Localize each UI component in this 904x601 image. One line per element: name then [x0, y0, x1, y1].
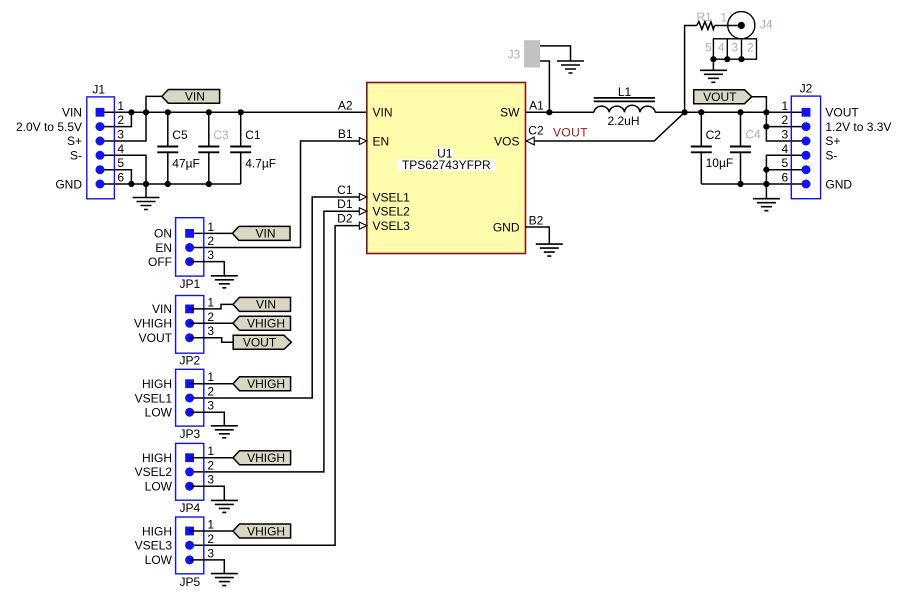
- svg-text:EN: EN: [373, 134, 390, 148]
- svg-text:VHIGH: VHIGH: [247, 451, 285, 465]
- svg-text:6: 6: [782, 171, 789, 185]
- svg-text:GND: GND: [825, 177, 852, 191]
- wire VSEL2 from JP4.2 to U1.VSEL2: [190, 211, 367, 472]
- net flag VOUT at output: [694, 90, 752, 104]
- connector J3 (DNP): [508, 40, 540, 67]
- U1 pin designators: [337, 99, 544, 228]
- junction VIN rail C3: [206, 109, 212, 115]
- svg-text:C2: C2: [528, 124, 544, 138]
- wire JP3 pin1 to VHIGH flag: [190, 383, 233, 385]
- svg-text:C1: C1: [245, 128, 261, 142]
- net flag VHIGH at JP3.1: [233, 377, 291, 391]
- ground at JP1: [211, 276, 238, 288]
- svg-text:VSEL2: VSEL2: [373, 205, 411, 219]
- net flag VHIGH at JP4.1: [233, 451, 291, 465]
- wire J2 pins 4-6 vertical: [766, 155, 806, 184]
- svg-text:3: 3: [731, 41, 738, 55]
- junction GND rail x146: [143, 181, 149, 187]
- svg-text:C2: C2: [706, 128, 722, 142]
- svg-text:JP1: JP1: [179, 277, 200, 291]
- svg-text:S-: S-: [825, 149, 837, 163]
- svg-text:2: 2: [207, 234, 214, 248]
- svg-text:GND: GND: [493, 220, 520, 234]
- svg-text:SW: SW: [500, 106, 520, 120]
- junction VOUT rail at C4: [737, 109, 743, 115]
- junction right GND rail ground stem: [763, 181, 769, 187]
- wire JP4 pin3 to ground: [190, 486, 225, 500]
- svg-text:EN: EN: [155, 241, 172, 255]
- capacitor C5: [157, 112, 200, 184]
- svg-text:VHIGH: VHIGH: [247, 377, 285, 391]
- jumper JP5: [176, 517, 204, 589]
- wire U1 GND B2 to ground: [526, 227, 550, 244]
- svg-text:4: 4: [117, 142, 124, 156]
- JP4 pin numbers: [207, 444, 214, 487]
- junction right GND rail C4: [737, 181, 743, 187]
- wire GND rail J1.6 to C1: [100, 183, 241, 185]
- svg-text:VIN: VIN: [152, 302, 172, 316]
- connector J4 coax (DNP): [705, 11, 773, 60]
- jumper JP3: [176, 369, 204, 441]
- svg-text:VIN: VIN: [256, 298, 276, 312]
- svg-text:JP2: JP2: [179, 353, 200, 367]
- JP5 pin numbers: [207, 518, 214, 561]
- svg-text:3: 3: [207, 546, 214, 560]
- junction GND rail C3: [206, 181, 212, 187]
- svg-text:LOW: LOW: [145, 553, 173, 567]
- junction VOUT rail at R1 riser: [682, 109, 688, 115]
- svg-text:VHIGH: VHIGH: [247, 317, 285, 331]
- svg-text:2: 2: [747, 41, 754, 55]
- JP2 pin numbers: [207, 295, 214, 338]
- svg-text:2: 2: [782, 113, 789, 127]
- svg-text:VSEL1: VSEL1: [373, 190, 411, 204]
- svg-text:OFF: OFF: [148, 255, 172, 269]
- svg-text:B2: B2: [529, 213, 544, 227]
- svg-text:2: 2: [207, 532, 214, 546]
- junction J4 shield pins: [710, 56, 716, 62]
- svg-text:2: 2: [207, 385, 214, 399]
- net flag VHIGH at JP5.1: [233, 524, 291, 538]
- arrowhead at U1 VOS pin: [526, 137, 534, 145]
- JP2 labels: [134, 302, 173, 345]
- svg-text:VOUT: VOUT: [825, 106, 859, 120]
- junction J2 pin5 tap: [763, 167, 769, 173]
- svg-text:2: 2: [207, 458, 214, 472]
- svg-text:VSEL1: VSEL1: [135, 391, 173, 405]
- junction VIN rail C5: [165, 109, 171, 115]
- op-amp U1 TPS62743YFPR body: [367, 83, 526, 254]
- net flag VIN at JP1.1: [232, 226, 290, 240]
- svg-text:D1: D1: [337, 197, 353, 211]
- junction VOUT rail at C2: [698, 109, 704, 115]
- wire GND rail ground stem: [145, 184, 147, 198]
- net flag VIN at JP2.1: [233, 297, 291, 311]
- wire GND rail C2 to J2.6: [701, 183, 806, 185]
- ground at U1 B2: [536, 244, 563, 256]
- svg-text:5: 5: [117, 156, 124, 170]
- svg-text:VOUT: VOUT: [243, 336, 277, 350]
- svg-text:HIGH: HIGH: [142, 377, 172, 391]
- svg-text:10µF: 10µF: [706, 156, 734, 170]
- JP4 labels: [135, 451, 173, 494]
- wire VOS feedback with diagonal: [526, 112, 685, 141]
- svg-text:4.7µF: 4.7µF: [245, 157, 276, 171]
- svg-text:J3: J3: [508, 47, 521, 61]
- wire J2 pin2: [766, 126, 806, 128]
- wire VSEL1 from JP3.2 to U1.VSEL1: [190, 197, 367, 398]
- JP3 pin numbers: [207, 370, 214, 413]
- svg-text:3: 3: [782, 128, 789, 142]
- svg-text:A1: A1: [529, 99, 544, 113]
- svg-text:2.2uH: 2.2uH: [607, 114, 639, 128]
- svg-text:1: 1: [207, 444, 214, 458]
- connector J2: [791, 82, 820, 199]
- wire VOUT flag to rail and J2.3: [752, 97, 806, 141]
- JP1 labels: [148, 227, 172, 269]
- junction VIN rail x131: [128, 109, 134, 115]
- svg-text:VHIGH: VHIGH: [134, 317, 172, 331]
- wire VSEL3 from JP5.2 to U1.VSEL3: [190, 226, 367, 546]
- net flag VIN at J1: [162, 90, 220, 104]
- svg-text:VOS: VOS: [494, 134, 519, 148]
- jumper JP1: [176, 218, 204, 291]
- svg-text:C1: C1: [337, 183, 353, 197]
- svg-text:S-: S-: [70, 149, 82, 163]
- wire JP2 pin1 to VIN flag: [190, 304, 233, 309]
- svg-text:1: 1: [207, 295, 214, 309]
- wire VIN rail J1.1 to U1.VIN: [100, 111, 367, 113]
- ground at JP5: [211, 574, 238, 586]
- wire J1 pin4 S- riser to GND rail: [100, 155, 146, 184]
- svg-text:L1: L1: [618, 85, 632, 99]
- ground at J2: [753, 199, 780, 211]
- svg-text:GND: GND: [55, 177, 82, 191]
- svg-text:S+: S+: [825, 134, 840, 148]
- svg-text:2.0V to 5.5V: 2.0V to 5.5V: [16, 120, 82, 134]
- junction VIN rail C1: [238, 109, 244, 115]
- svg-text:VSEL3: VSEL3: [135, 539, 173, 553]
- svg-text:5: 5: [782, 156, 789, 170]
- svg-text:4: 4: [782, 142, 789, 156]
- U1 pin names: [373, 106, 521, 235]
- svg-text:3: 3: [117, 128, 124, 142]
- svg-text:J4: J4: [760, 18, 773, 32]
- svg-text:R1: R1: [697, 10, 713, 24]
- svg-text:3: 3: [207, 399, 214, 413]
- svg-text:VIN: VIN: [255, 227, 275, 241]
- svg-text:LOW: LOW: [145, 406, 173, 420]
- capacitor C2: [691, 112, 733, 184]
- svg-text:VHIGH: VHIGH: [247, 524, 285, 538]
- JP1 pin numbers: [207, 220, 214, 262]
- junction SW at J3 drop: [546, 109, 552, 115]
- svg-text:1: 1: [207, 220, 214, 234]
- svg-text:3: 3: [207, 473, 214, 487]
- svg-text:VSEL2: VSEL2: [135, 465, 173, 479]
- svg-text:VOUT: VOUT: [553, 125, 588, 139]
- svg-text:JP5: JP5: [179, 575, 200, 589]
- wire JP2 pin3 to VOUT flag: [190, 338, 234, 343]
- wire J3 bottom to SW rail: [540, 61, 549, 112]
- net flag VOUT at JP2.3: [233, 335, 291, 349]
- capacitor C3 (DNP): [198, 112, 229, 184]
- wire SW rail U1 to L1: [526, 111, 594, 113]
- junction J2 pin2 tap: [763, 124, 769, 130]
- jumper JP4: [176, 443, 204, 515]
- svg-text:1: 1: [117, 99, 124, 113]
- jumper JP2: [176, 296, 204, 368]
- wire J2 ground stem: [765, 184, 767, 199]
- svg-text:J2: J2: [800, 82, 813, 96]
- svg-text:J1: J1: [92, 83, 105, 97]
- svg-text:VOUT: VOUT: [703, 90, 737, 104]
- svg-text:VSEL3: VSEL3: [373, 219, 411, 233]
- U1 input pin arrowheads EN VSEL1 VSEL2 VSEL3: [359, 138, 367, 230]
- svg-text:TPS62743YFPR: TPS62743YFPR: [402, 158, 491, 172]
- wire J1 pin5 riser to GND rail: [100, 170, 131, 184]
- svg-text:1: 1: [207, 370, 214, 384]
- svg-text:D2: D2: [337, 212, 353, 226]
- svg-text:S+: S+: [67, 134, 82, 148]
- svg-text:JP4: JP4: [179, 501, 200, 515]
- svg-text:6: 6: [117, 171, 124, 185]
- JP3 labels: [135, 377, 173, 420]
- wire J3 top to ground: [540, 46, 570, 61]
- svg-text:HIGH: HIGH: [142, 451, 172, 465]
- wire JP2 pin2 to VHIGH flag: [190, 322, 233, 324]
- wire JP1 pin3 to ground: [190, 262, 225, 276]
- svg-text:VIN: VIN: [62, 106, 82, 120]
- svg-text:C5: C5: [172, 128, 188, 142]
- svg-text:HIGH: HIGH: [142, 524, 172, 538]
- svg-text:C4: C4: [746, 127, 762, 141]
- J2 signal labels: [825, 106, 891, 192]
- wire R1 to J4 center: [715, 25, 742, 27]
- svg-text:3: 3: [207, 324, 214, 338]
- svg-text:47µF: 47µF: [172, 157, 200, 171]
- svg-text:3: 3: [207, 248, 214, 262]
- wire JP5 pin3 to ground: [190, 560, 225, 574]
- svg-text:4: 4: [718, 41, 725, 55]
- svg-text:JP3: JP3: [179, 427, 200, 441]
- JP5 labels: [135, 524, 173, 567]
- inductor L1 2.2uH: [594, 85, 656, 128]
- svg-text:2: 2: [207, 310, 214, 324]
- ground at J1 GND rail: [133, 198, 160, 210]
- ground at J3: [557, 61, 584, 73]
- wire J4 shield to ground: [712, 59, 714, 70]
- wire JP4 pin1 to VHIGH flag: [190, 457, 233, 459]
- net flag VHIGH at JP2.2: [233, 316, 291, 330]
- svg-text:ON: ON: [154, 227, 172, 241]
- resistor R1 (DNP): [697, 10, 715, 30]
- svg-text:B1: B1: [338, 127, 353, 141]
- J1 pin numbers: [117, 99, 124, 185]
- svg-text:VIN: VIN: [185, 90, 205, 104]
- junction GND rail x131: [128, 181, 134, 187]
- wire JP5 pin1 to VHIGH flag: [190, 530, 233, 532]
- wire J1 pin2 riser to VIN rail: [100, 112, 131, 126]
- junction VOUT rail at flag drop: [763, 109, 769, 115]
- wire J2 pin5: [766, 169, 806, 171]
- svg-text:1.2V to 3.3V: 1.2V to 3.3V: [825, 120, 891, 134]
- J1 signal labels: [16, 106, 82, 192]
- capacitor C1: [230, 112, 276, 184]
- wire R1 riser from VOUT rail: [685, 26, 697, 113]
- svg-text:1: 1: [720, 11, 727, 25]
- svg-text:A2: A2: [338, 99, 353, 113]
- svg-text:2: 2: [117, 113, 124, 127]
- capacitor C4 (DNP): [730, 112, 761, 184]
- svg-text:VOUT: VOUT: [139, 331, 173, 345]
- junction VIN rail x146: [143, 109, 149, 115]
- ground at JP4: [211, 500, 238, 512]
- svg-text:1: 1: [782, 99, 789, 113]
- svg-text:1: 1: [207, 518, 214, 532]
- svg-text:5: 5: [705, 41, 712, 55]
- ground at JP3: [211, 426, 238, 438]
- junction GND rail C5: [165, 181, 171, 187]
- wire JP3 pin3 to ground: [190, 412, 225, 426]
- ground at J4: [700, 70, 727, 82]
- wire EN from JP1.2 to U1.EN: [190, 141, 367, 248]
- svg-text:VIN: VIN: [373, 106, 393, 120]
- svg-text:C3: C3: [213, 128, 229, 142]
- wire J1 pin3 S+ riser and VIN flag stem: [100, 96, 162, 141]
- J2 pin numbers: [782, 99, 789, 185]
- connector J1: [87, 83, 115, 199]
- wire VOUT rail L1 to J2.1: [655, 111, 806, 113]
- svg-text:LOW: LOW: [145, 480, 173, 494]
